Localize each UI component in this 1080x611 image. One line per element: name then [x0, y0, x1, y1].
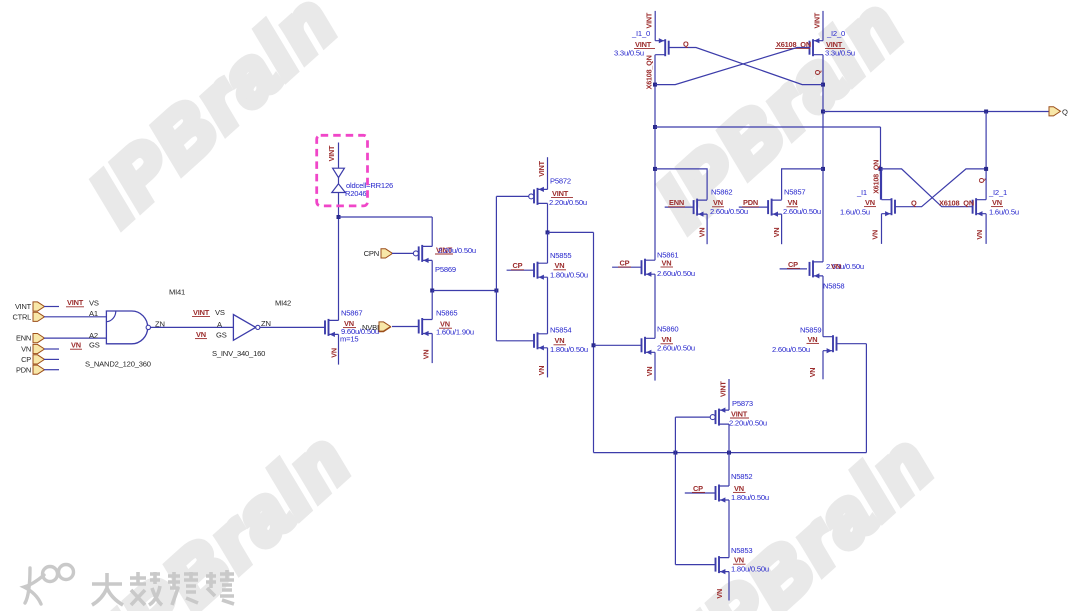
svg-text:MI41: MI41: [169, 288, 185, 297]
svg-text:X6108_QN: X6108_QN: [645, 55, 654, 89]
svg-text:ENN: ENN: [16, 334, 31, 343]
svg-text:N5857: N5857: [784, 187, 805, 196]
svg-text:1.6u/0.5u: 1.6u/0.5u: [989, 208, 1019, 217]
svg-text:Q: Q: [977, 177, 986, 183]
svg-text:2.60u/0.50u: 2.60u/0.50u: [657, 269, 695, 278]
svg-text:VN: VN: [715, 589, 724, 599]
svg-text:1.80u/0.50u: 1.80u/0.50u: [731, 565, 769, 574]
svg-text:_I1_0: _I1_0: [631, 29, 650, 38]
svg-text:N5862: N5862: [711, 187, 732, 196]
svg-text:VN: VN: [537, 366, 546, 376]
svg-text:VN: VN: [734, 484, 744, 493]
svg-text:VS: VS: [89, 299, 99, 308]
svg-text:P5873: P5873: [732, 399, 753, 408]
svg-text:VN: VN: [555, 261, 565, 270]
svg-text:VINT: VINT: [719, 381, 728, 397]
svg-text:VINT: VINT: [731, 409, 748, 418]
svg-text:A1: A1: [89, 309, 98, 318]
svg-text:VS: VS: [215, 308, 225, 317]
svg-text:2.60u/0.50u: 2.60u/0.50u: [783, 207, 821, 216]
svg-text:2.20u/0.50u: 2.20u/0.50u: [549, 198, 587, 207]
svg-text:ENN: ENN: [669, 198, 684, 207]
svg-text:CP: CP: [693, 484, 703, 493]
svg-text:GS: GS: [216, 330, 227, 339]
svg-text:VINT: VINT: [327, 145, 336, 161]
svg-text:VINT: VINT: [537, 160, 546, 176]
svg-text:N5852: N5852: [731, 472, 752, 481]
svg-text:NVBI: NVBI: [362, 323, 379, 332]
svg-text:m=15: m=15: [340, 335, 358, 344]
svg-text:Q: Q: [683, 39, 689, 48]
svg-text:1.60u/1.90u: 1.60u/1.90u: [436, 327, 474, 336]
svg-text:ZN: ZN: [155, 320, 165, 329]
svg-text:VINT: VINT: [193, 308, 210, 317]
svg-text:VN: VN: [808, 368, 817, 378]
svg-text:VINT: VINT: [67, 298, 84, 307]
svg-text:CPN: CPN: [364, 249, 379, 258]
svg-text:CP: CP: [788, 260, 798, 269]
svg-text:VN: VN: [422, 350, 431, 360]
svg-text:2.60u/0.50u: 2.60u/0.50u: [710, 207, 748, 216]
svg-text:X6108_QN: X6108_QN: [872, 160, 881, 194]
svg-text:2.20u/0.50u: 2.20u/0.50u: [438, 246, 476, 255]
svg-text:VN: VN: [21, 345, 31, 354]
svg-text:VN: VN: [698, 228, 707, 238]
svg-text:_I2_1: _I2_1: [988, 188, 1007, 197]
svg-text:Q: Q: [1062, 108, 1068, 117]
svg-text:Q: Q: [911, 198, 917, 207]
svg-text:VN: VN: [734, 556, 744, 565]
svg-text:CTRL: CTRL: [13, 312, 32, 321]
svg-text:VN: VN: [992, 198, 1002, 207]
svg-text:VN: VN: [645, 367, 654, 377]
svg-text:N5855: N5855: [550, 251, 571, 260]
svg-text:_I1: _I1: [856, 188, 867, 197]
svg-text:VINT: VINT: [645, 12, 654, 28]
svg-text:VINT: VINT: [552, 189, 569, 198]
svg-text:CP: CP: [21, 355, 31, 364]
svg-text:CP: CP: [513, 261, 523, 270]
svg-text:GS: GS: [89, 341, 100, 350]
svg-text:R2046: R2046: [345, 189, 366, 198]
svg-text:N5867: N5867: [341, 308, 362, 317]
svg-text:3.3u/0.5u: 3.3u/0.5u: [614, 48, 644, 57]
svg-text:VN: VN: [975, 230, 984, 240]
svg-text:VN: VN: [865, 198, 875, 207]
svg-text:VN: VN: [330, 348, 339, 358]
svg-text:S_INV_340_160: S_INV_340_160: [212, 349, 265, 358]
svg-text:VINT: VINT: [15, 302, 32, 311]
svg-text:N5858: N5858: [823, 282, 844, 291]
svg-text:VN: VN: [871, 230, 880, 240]
svg-text:VN: VN: [808, 335, 818, 344]
svg-text:N5859: N5859: [800, 325, 821, 334]
svg-text:PDN: PDN: [743, 198, 758, 207]
svg-text:1.80u/0.50u: 1.80u/0.50u: [550, 270, 588, 279]
svg-text:1.6u/0.5u: 1.6u/0.5u: [840, 208, 870, 217]
svg-text:N5865: N5865: [436, 308, 457, 317]
svg-text:N5860: N5860: [657, 325, 678, 334]
svg-text:VN: VN: [555, 336, 565, 345]
svg-text:P5869: P5869: [435, 265, 456, 274]
svg-text:VINT: VINT: [813, 12, 822, 28]
svg-text:2.20u/0.50u: 2.20u/0.50u: [729, 419, 767, 428]
svg-text:N5853: N5853: [731, 546, 752, 555]
svg-text:VN: VN: [772, 228, 781, 238]
svg-text:VN: VN: [71, 341, 81, 350]
svg-text:2.60u/0.50u: 2.60u/0.50u: [657, 343, 695, 352]
svg-text:N5854: N5854: [550, 325, 571, 334]
svg-text:Q: Q: [813, 69, 822, 75]
svg-text:S_NAND2_120_360: S_NAND2_120_360: [85, 359, 151, 368]
svg-text:VN: VN: [196, 330, 206, 339]
svg-text:1.80u/0.50u: 1.80u/0.50u: [550, 345, 588, 354]
svg-text:1.80u/0.50u: 1.80u/0.50u: [731, 493, 769, 502]
svg-text:CP: CP: [620, 258, 630, 267]
svg-text:VN: VN: [662, 258, 672, 267]
svg-text:_I2_0: _I2_0: [826, 29, 845, 38]
svg-text:PDN: PDN: [16, 365, 31, 374]
svg-text:P5872: P5872: [550, 177, 571, 186]
svg-text:X6108_QN: X6108_QN: [939, 198, 974, 207]
svg-text:3.3u/0.5u: 3.3u/0.5u: [825, 48, 855, 57]
svg-text:MI42: MI42: [275, 299, 291, 308]
svg-text:2.60u/0.50u: 2.60u/0.50u: [772, 345, 810, 354]
svg-text:A2: A2: [89, 331, 98, 340]
svg-text:ZN: ZN: [261, 319, 271, 328]
svg-text:VN: VN: [831, 262, 841, 271]
